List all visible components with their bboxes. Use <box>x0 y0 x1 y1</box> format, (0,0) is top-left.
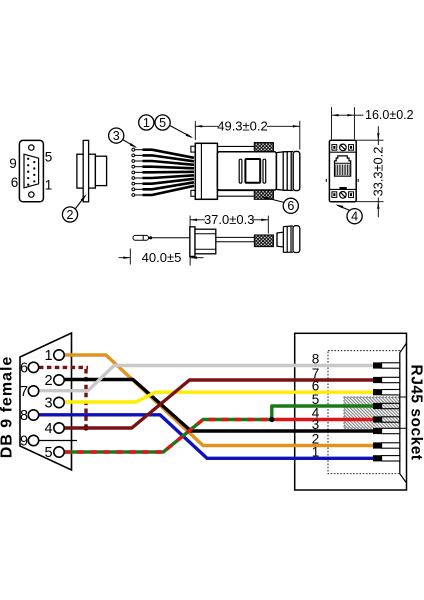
svg-text:6: 6 <box>287 199 294 213</box>
svg-text:3: 3 <box>113 129 120 143</box>
svg-text:2: 2 <box>44 373 52 389</box>
svg-text:5: 5 <box>159 116 166 130</box>
svg-text:49.3±0.2: 49.3±0.2 <box>217 118 268 133</box>
svg-text:3: 3 <box>44 396 52 412</box>
svg-text:33.3±0.2: 33.3±0.2 <box>370 147 385 197</box>
svg-text:1: 1 <box>44 348 52 364</box>
svg-text:5: 5 <box>44 445 52 461</box>
svg-text:9: 9 <box>20 434 28 450</box>
svg-text:6: 6 <box>11 175 19 190</box>
svg-text:4: 4 <box>351 210 358 224</box>
svg-text:5: 5 <box>45 150 53 165</box>
svg-text:1: 1 <box>45 178 53 193</box>
svg-text:2: 2 <box>67 208 74 222</box>
svg-text:9: 9 <box>9 156 17 171</box>
svg-text:1: 1 <box>143 116 150 130</box>
svg-text:1: 1 <box>312 445 320 460</box>
svg-text:16.0±0.2: 16.0±0.2 <box>365 108 414 122</box>
svg-text:40.0±5: 40.0±5 <box>142 250 182 265</box>
svg-text:3: 3 <box>312 417 320 432</box>
svg-text:7: 7 <box>20 384 28 400</box>
svg-text:DB 9 female: DB 9 female <box>0 356 16 459</box>
svg-text:37.0±0.3: 37.0±0.3 <box>204 212 255 227</box>
svg-text:8: 8 <box>20 408 28 424</box>
svg-text:6: 6 <box>312 378 320 393</box>
svg-text:8: 8 <box>312 352 320 367</box>
svg-text:RJ45 socket: RJ45 socket <box>408 365 424 461</box>
svg-text:4: 4 <box>44 421 52 437</box>
svg-text:6: 6 <box>20 360 28 376</box>
